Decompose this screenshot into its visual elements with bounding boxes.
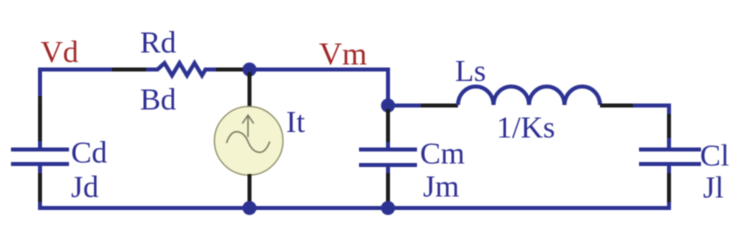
wire: black segment from Cm to bottom rail [386,173,390,206]
wire: top rail blue from node to Vm corner [249,68,390,72]
wire: black drop from source to bottom rail [248,174,252,206]
node B (Vm node) [381,99,395,113]
svg-text:1/Ks: 1/Ks [497,110,556,145]
svg-text:Cm: Cm [420,136,465,171]
wire: blue lead below Cm [386,166,390,174]
svg-text:Jl: Jl [703,170,724,205]
wire: mid rail blue stub right of Vm node [388,104,421,108]
wire: top rail black segment right of resistor [216,68,244,72]
svg-text:Jd: Jd [71,169,99,204]
capacitor Cm bottom plate [359,163,417,167]
wire: top rail blue left section [38,68,112,72]
svg-text:Cl: Cl [700,138,729,173]
wire: right rail blue to bottom corner [667,202,671,210]
wire: vertical blue drop at Vm corner [386,68,390,107]
current source It circle [214,107,283,176]
wire: left rail blue lead to Cd top plate [38,141,42,148]
wire: left rail blue to bottom corner [38,202,42,210]
wire: bottom rail blue [38,206,671,210]
svg-text:Bd: Bd [140,82,177,117]
capacitor Cl top plate [639,148,701,152]
resistor Rd zigzag body [158,63,206,76]
svg-text:Vm: Vm [319,36,367,72]
capacitor Cm top plate [359,148,417,152]
wire: right rail blue below corner [667,104,671,115]
svg-text:It: It [286,104,305,139]
source sine wave [227,132,270,153]
wire: right rail blue lead below Cl [667,165,671,173]
wire: mid rail blue to right corner [633,104,671,108]
svg-text:Vd: Vd [41,34,79,69]
wire: blue lead to Cm top plate [386,142,390,148]
wire: black drop from Vm node toward Cm [386,109,390,142]
wire: left rail black segment [38,96,42,141]
wire: resistor right lead blue [204,68,216,72]
wire: top rail black segment left of resistor [112,68,146,72]
wire: left rail blue lead below Cd [38,165,42,173]
wire: left rail blue below top corner [38,68,42,97]
inductor Ls (four arcs) [458,87,600,106]
wire: black drop from top node to source It [248,72,252,108]
node A (top node at resistor output) [243,63,257,77]
node D (bottom node under Cm) [381,201,395,215]
wire: right rail black segment lower [667,173,671,202]
svg-text:Ls: Ls [455,53,486,88]
wire: right rail blue lead to Cl top plate [667,138,671,148]
capacitor Cd top plate [11,148,69,152]
wire: right rail black segment [667,114,671,138]
capacitor Cl bottom plate [639,162,701,166]
source arrow (up) [242,115,253,137]
wire: resistor left lead blue [146,68,158,72]
wire: mid rail black segment before inductor [421,104,458,108]
wire: left rail black segment lower [38,173,42,202]
wire: mid rail black segment after inductor [600,104,633,108]
svg-text:Rd: Rd [140,25,177,60]
svg-text:Jm: Jm [423,168,459,203]
capacitor Cd bottom plate [11,162,69,166]
node C (bottom node under source) [243,201,257,215]
svg-text:Cd: Cd [71,135,108,170]
